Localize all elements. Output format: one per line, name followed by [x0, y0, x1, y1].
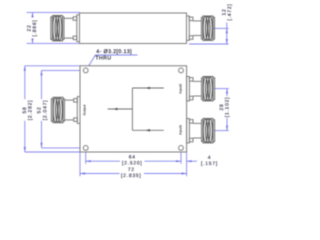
dim 58 extension lines	[25, 65, 80, 67]
dim 64 line	[86, 160, 181, 162]
dim 28 line	[226, 89, 228, 131]
top view body	[80, 13, 187, 44]
schematic top branch arrow	[146, 87, 151, 90]
svg-text:[.472]: [.472]	[227, 3, 233, 20]
svg-text:[2.520]: [2.520]	[122, 161, 143, 167]
dim 12 extension lines	[214, 27, 229, 29]
dim 22 line	[32, 12, 34, 43]
dim 64 arrows	[86, 160, 91, 162]
mounting hole bottom-right	[179, 146, 184, 151]
dim text 52	[37, 99, 49, 121]
dim 52 line	[41, 70, 43, 147]
dim text 12	[221, 2, 233, 23]
top view left connector	[51, 15, 80, 42]
dim 22 arrows	[31, 12, 33, 17]
top view right connector	[187, 16, 215, 40]
dim 22 extension lines	[27, 11, 81, 13]
dim 72 arrows	[80, 172, 85, 174]
svg-text:64: 64	[129, 154, 136, 160]
schematic bottom branch wire	[132, 129, 163, 131]
leader arrow	[87, 65, 91, 69]
svg-text:Output: Output	[83, 104, 87, 116]
schematic stem arrow	[113, 108, 118, 111]
dim 4 tail	[187, 160, 197, 162]
dim 12 line	[226, 20, 228, 44]
dim 28 arrows	[226, 89, 228, 94]
dim text 64	[120, 154, 145, 165]
svg-text:[.866]: [.866]	[32, 19, 38, 36]
svg-text:[.157]: [.157]	[201, 161, 218, 167]
dim 4 edge extension line	[186, 153, 188, 177]
svg-text:[2.835]: [2.835]	[121, 173, 142, 179]
mounting hole top-right	[179, 68, 184, 73]
input1 connector	[187, 119, 215, 143]
svg-text:[1.102]: [1.102]	[225, 97, 231, 118]
dim 12 arrows	[226, 28, 228, 33]
schematic top branch wire	[132, 87, 163, 89]
svg-text:Input2: Input2	[179, 84, 183, 94]
schematic bottom branch arrow	[146, 129, 151, 132]
mounting hole bottom-left	[83, 146, 88, 151]
dim 72 line	[80, 173, 187, 175]
svg-text:[2.047]: [2.047]	[42, 100, 48, 121]
svg-text:Input1: Input1	[179, 125, 183, 135]
dim 72 left extension line	[79, 153, 81, 177]
leader 4-holes	[87, 55, 138, 69]
dim 4 arrow	[187, 160, 192, 162]
svg-text:[2.282]: [2.282]	[28, 100, 34, 121]
dimension arrowheads	[24, 12, 228, 174]
dim 52 arrows	[40, 70, 42, 75]
dim text 28	[219, 96, 231, 118]
mounting hole top-left	[83, 68, 88, 73]
main body	[80, 66, 187, 152]
schematic stem wire	[108, 108, 133, 110]
svg-text:THRU: THRU	[95, 56, 111, 62]
dim text 72	[120, 167, 145, 178]
output connector	[51, 97, 80, 124]
schematic split wire	[131, 88, 133, 130]
input2 connector	[187, 77, 215, 101]
dim 58 arrows	[24, 66, 26, 71]
dim text 22	[26, 18, 38, 39]
dim 52 extension lines	[42, 69, 84, 71]
dim 28 extension lines	[214, 88, 229, 90]
dim 64 hole extension lines	[85, 151, 87, 164]
dim text 58	[22, 99, 34, 121]
dim 58 line	[24, 66, 26, 152]
svg-text:4- Ø3.2[0.13]: 4- Ø3.2[0.13]	[96, 49, 132, 55]
